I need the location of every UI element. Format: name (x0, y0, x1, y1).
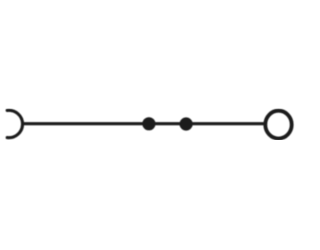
ring terminal (right circle contact) (265, 111, 291, 139)
wire (21, 122, 266, 125)
junction dot 2 (180, 117, 193, 130)
junction dot 1 (142, 117, 155, 130)
socket contact (left arc terminal) (7, 110, 22, 137)
